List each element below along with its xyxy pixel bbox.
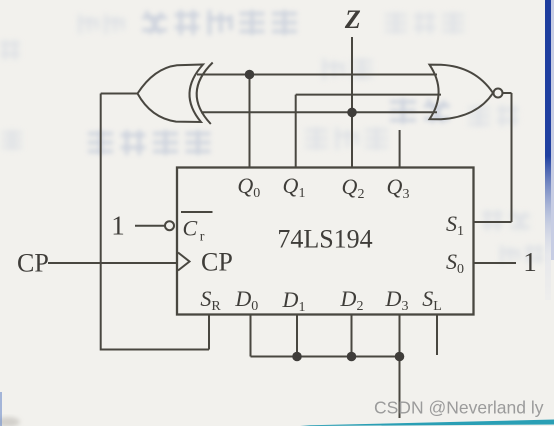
bleed-through ghost text blobs (decorative) <box>88 10 450 155</box>
svg-text:Q1: Q1 <box>283 173 306 201</box>
wire right feedback vertical <box>511 93 513 222</box>
wire bottom data bus <box>251 356 400 358</box>
circuit drawing <box>48 37 516 418</box>
wire SL stub <box>436 315 438 356</box>
node D1 junction <box>292 352 302 362</box>
svg-text:D3: D3 <box>385 286 409 314</box>
svg-text:CP: CP <box>17 249 49 278</box>
wire D0 vertical <box>250 315 252 357</box>
bottom teal strip <box>300 420 554 426</box>
wire NOR output <box>503 92 512 94</box>
svg-text:1: 1 <box>111 211 125 241</box>
wire Q3 stub <box>399 130 401 168</box>
smudge bottom-left <box>0 417 20 426</box>
wire Cr input <box>135 225 165 227</box>
svg-text:D0: D0 <box>234 286 258 314</box>
IC U1 74LS194 box <box>177 168 474 315</box>
wire D2 vertical <box>351 315 353 357</box>
Cr input bubble <box>165 221 174 230</box>
svg-text:CSDN @Neverland ly: CSDN @Neverland ly <box>374 398 544 418</box>
wire S0 input <box>474 262 517 264</box>
left edge blue sliver <box>0 392 2 426</box>
junction dots <box>245 70 405 362</box>
svg-text:D2: D2 <box>340 286 364 314</box>
svg-text:Q0: Q0 <box>237 173 260 201</box>
wire Q0 vertical <box>249 75 251 168</box>
svg-text:SL: SL <box>422 286 442 314</box>
right page-edge blue stripe <box>545 0 551 300</box>
svg-text:S1: S1 <box>446 211 464 239</box>
svg-text:SR: SR <box>200 286 221 314</box>
wire top feedback line (Q0 to gates) <box>197 74 437 76</box>
nor gate G2 body <box>430 65 494 120</box>
node D3 junction <box>395 352 405 362</box>
wire D1 vertical <box>296 315 298 357</box>
node Q0/top line junction <box>245 70 255 80</box>
wire left feedback vertical <box>100 94 102 351</box>
xor gate G1 body <box>138 65 204 123</box>
node Z/Q2 junction <box>347 108 357 118</box>
wire S1 horizontal <box>474 221 512 223</box>
wire bottom feedback horizontal <box>101 349 209 351</box>
svg-text:Q2: Q2 <box>342 174 365 202</box>
svg-text:1: 1 <box>523 247 537 277</box>
svg-text:CP: CP <box>201 248 233 277</box>
wire Z vertical <box>351 37 353 168</box>
Cr overbar <box>181 211 213 213</box>
wire SR pin vertical <box>208 315 210 350</box>
xor gate G1 second arc <box>197 63 213 125</box>
wire third line XOR input to NOR <box>201 111 437 113</box>
wire D3 vertical <box>399 315 401 419</box>
svg-text:Cr: Cr <box>183 216 205 245</box>
wire Q1 vertical <box>295 95 297 168</box>
svg-text:Z: Z <box>344 5 361 34</box>
svg-text:Q3: Q3 <box>387 174 410 202</box>
svg-text:D1: D1 <box>282 287 306 315</box>
wire XOR output to left <box>101 93 138 95</box>
nor gate G2 output bubble <box>494 89 503 98</box>
CP clock triangle <box>178 253 190 271</box>
wire Q1 horizontal to NOR <box>296 94 441 96</box>
svg-text:S0: S0 <box>446 249 464 277</box>
node D2 junction <box>347 352 357 362</box>
wire CP input <box>48 262 177 264</box>
svg-text:74LS194: 74LS194 <box>277 225 372 254</box>
